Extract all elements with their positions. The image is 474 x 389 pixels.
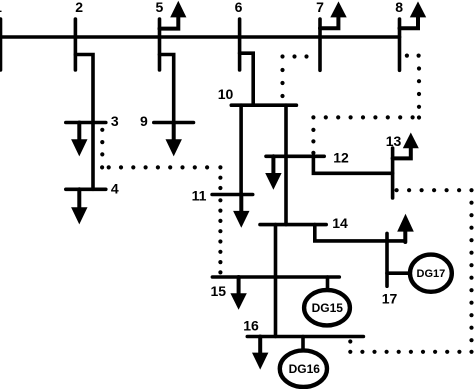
svg-text:4: 4 [111, 181, 119, 197]
DG unit DG17 [410, 255, 452, 292]
bus 13 [391, 148, 395, 198]
svg-text:2: 2 [75, 0, 83, 15]
load arrow at bus 9 [166, 123, 182, 157]
load arrow at bus 16 [252, 337, 268, 370]
wire bus 17 to DG17 [387, 271, 409, 275]
svg-text:10: 10 [218, 86, 234, 102]
load arrow at bus 12 [265, 156, 281, 189]
generator arrow at bus 7 [320, 1, 347, 28]
svg-text:15: 15 [211, 283, 227, 299]
bus 4 [66, 188, 106, 192]
load arrow at bus 3 [71, 123, 87, 157]
wire main feeder 1-8 [0, 35, 400, 39]
wire bus 12 to bus 14 [284, 156, 288, 224]
svg-text:13: 13 [386, 133, 402, 149]
svg-text:11: 11 [192, 188, 207, 204]
wire bus 15 to DG15 [326, 277, 330, 290]
bus 6 [238, 19, 242, 70]
bus 11 [212, 193, 253, 197]
bus 10 [231, 103, 296, 107]
bus 16 [247, 335, 363, 339]
bus 3 [66, 121, 106, 125]
svg-text:7: 7 [316, 0, 324, 15]
bus 2 [74, 19, 78, 70]
bus 5 [158, 19, 162, 70]
svg-text:17: 17 [382, 291, 398, 307]
load arrow at bus 11 [233, 195, 249, 228]
tie switch dotted line bus 3 to bus 15 [100, 128, 222, 275]
tie switch dotted line bus 7 to bus 10 [280, 54, 308, 98]
svg-text:14: 14 [332, 215, 348, 231]
wire bus 14 to bus 15 [274, 225, 278, 277]
svg-text:9: 9 [140, 113, 148, 129]
svg-text:8: 8 [395, 0, 403, 15]
svg-text:1: 1 [0, 0, 2, 15]
load arrow at bus 4 [71, 189, 87, 224]
svg-text:5: 5 [156, 0, 164, 15]
tie switch dotted line bus 13 to bus 16 [348, 188, 473, 354]
DG unit DG15 [304, 290, 350, 325]
wire bus 10 to bus 12 [284, 105, 288, 156]
wire bus 16 to DG16 [301, 337, 305, 351]
generator arrow at bus 5 [160, 1, 187, 29]
wire bus 3 to bus 4 [91, 123, 95, 190]
bus 15 [212, 275, 339, 279]
load arrow at bus 15 [230, 277, 246, 310]
generator arrow at bus 8 [400, 1, 427, 28]
wire bus 12 to bus 13 [313, 156, 392, 173]
wire bus 14 to bus 17 with generator arrow at bus 17 [315, 214, 414, 242]
svg-text:DG17: DG17 [417, 268, 446, 280]
svg-text:12: 12 [333, 149, 349, 165]
wire bus 10 to bus 11 [239, 105, 243, 194]
generator arrow at bus 13 [393, 133, 419, 159]
bus 14 [260, 223, 326, 227]
tie switch dotted line bus 8 to bus 12 [311, 54, 421, 155]
bus 7 [318, 19, 322, 70]
svg-text:DG15: DG15 [312, 301, 344, 315]
bus 8 [398, 19, 402, 70]
wire bus 2 to bus 3 [75, 55, 93, 123]
wire bus 15 to bus 16 [274, 277, 278, 337]
wire bus 5 to bus 9 [160, 55, 174, 123]
bus 9 [154, 121, 194, 125]
wire bus 6 to bus 10 [240, 53, 254, 105]
svg-text:6: 6 [235, 0, 243, 15]
DG unit DG16 [280, 350, 327, 387]
svg-text:DG16: DG16 [289, 362, 321, 376]
svg-text:16: 16 [243, 318, 259, 334]
bus 12 [266, 155, 324, 159]
svg-text:3: 3 [111, 113, 119, 129]
bus 1 [0, 19, 2, 70]
bus 17 [385, 233, 389, 286]
